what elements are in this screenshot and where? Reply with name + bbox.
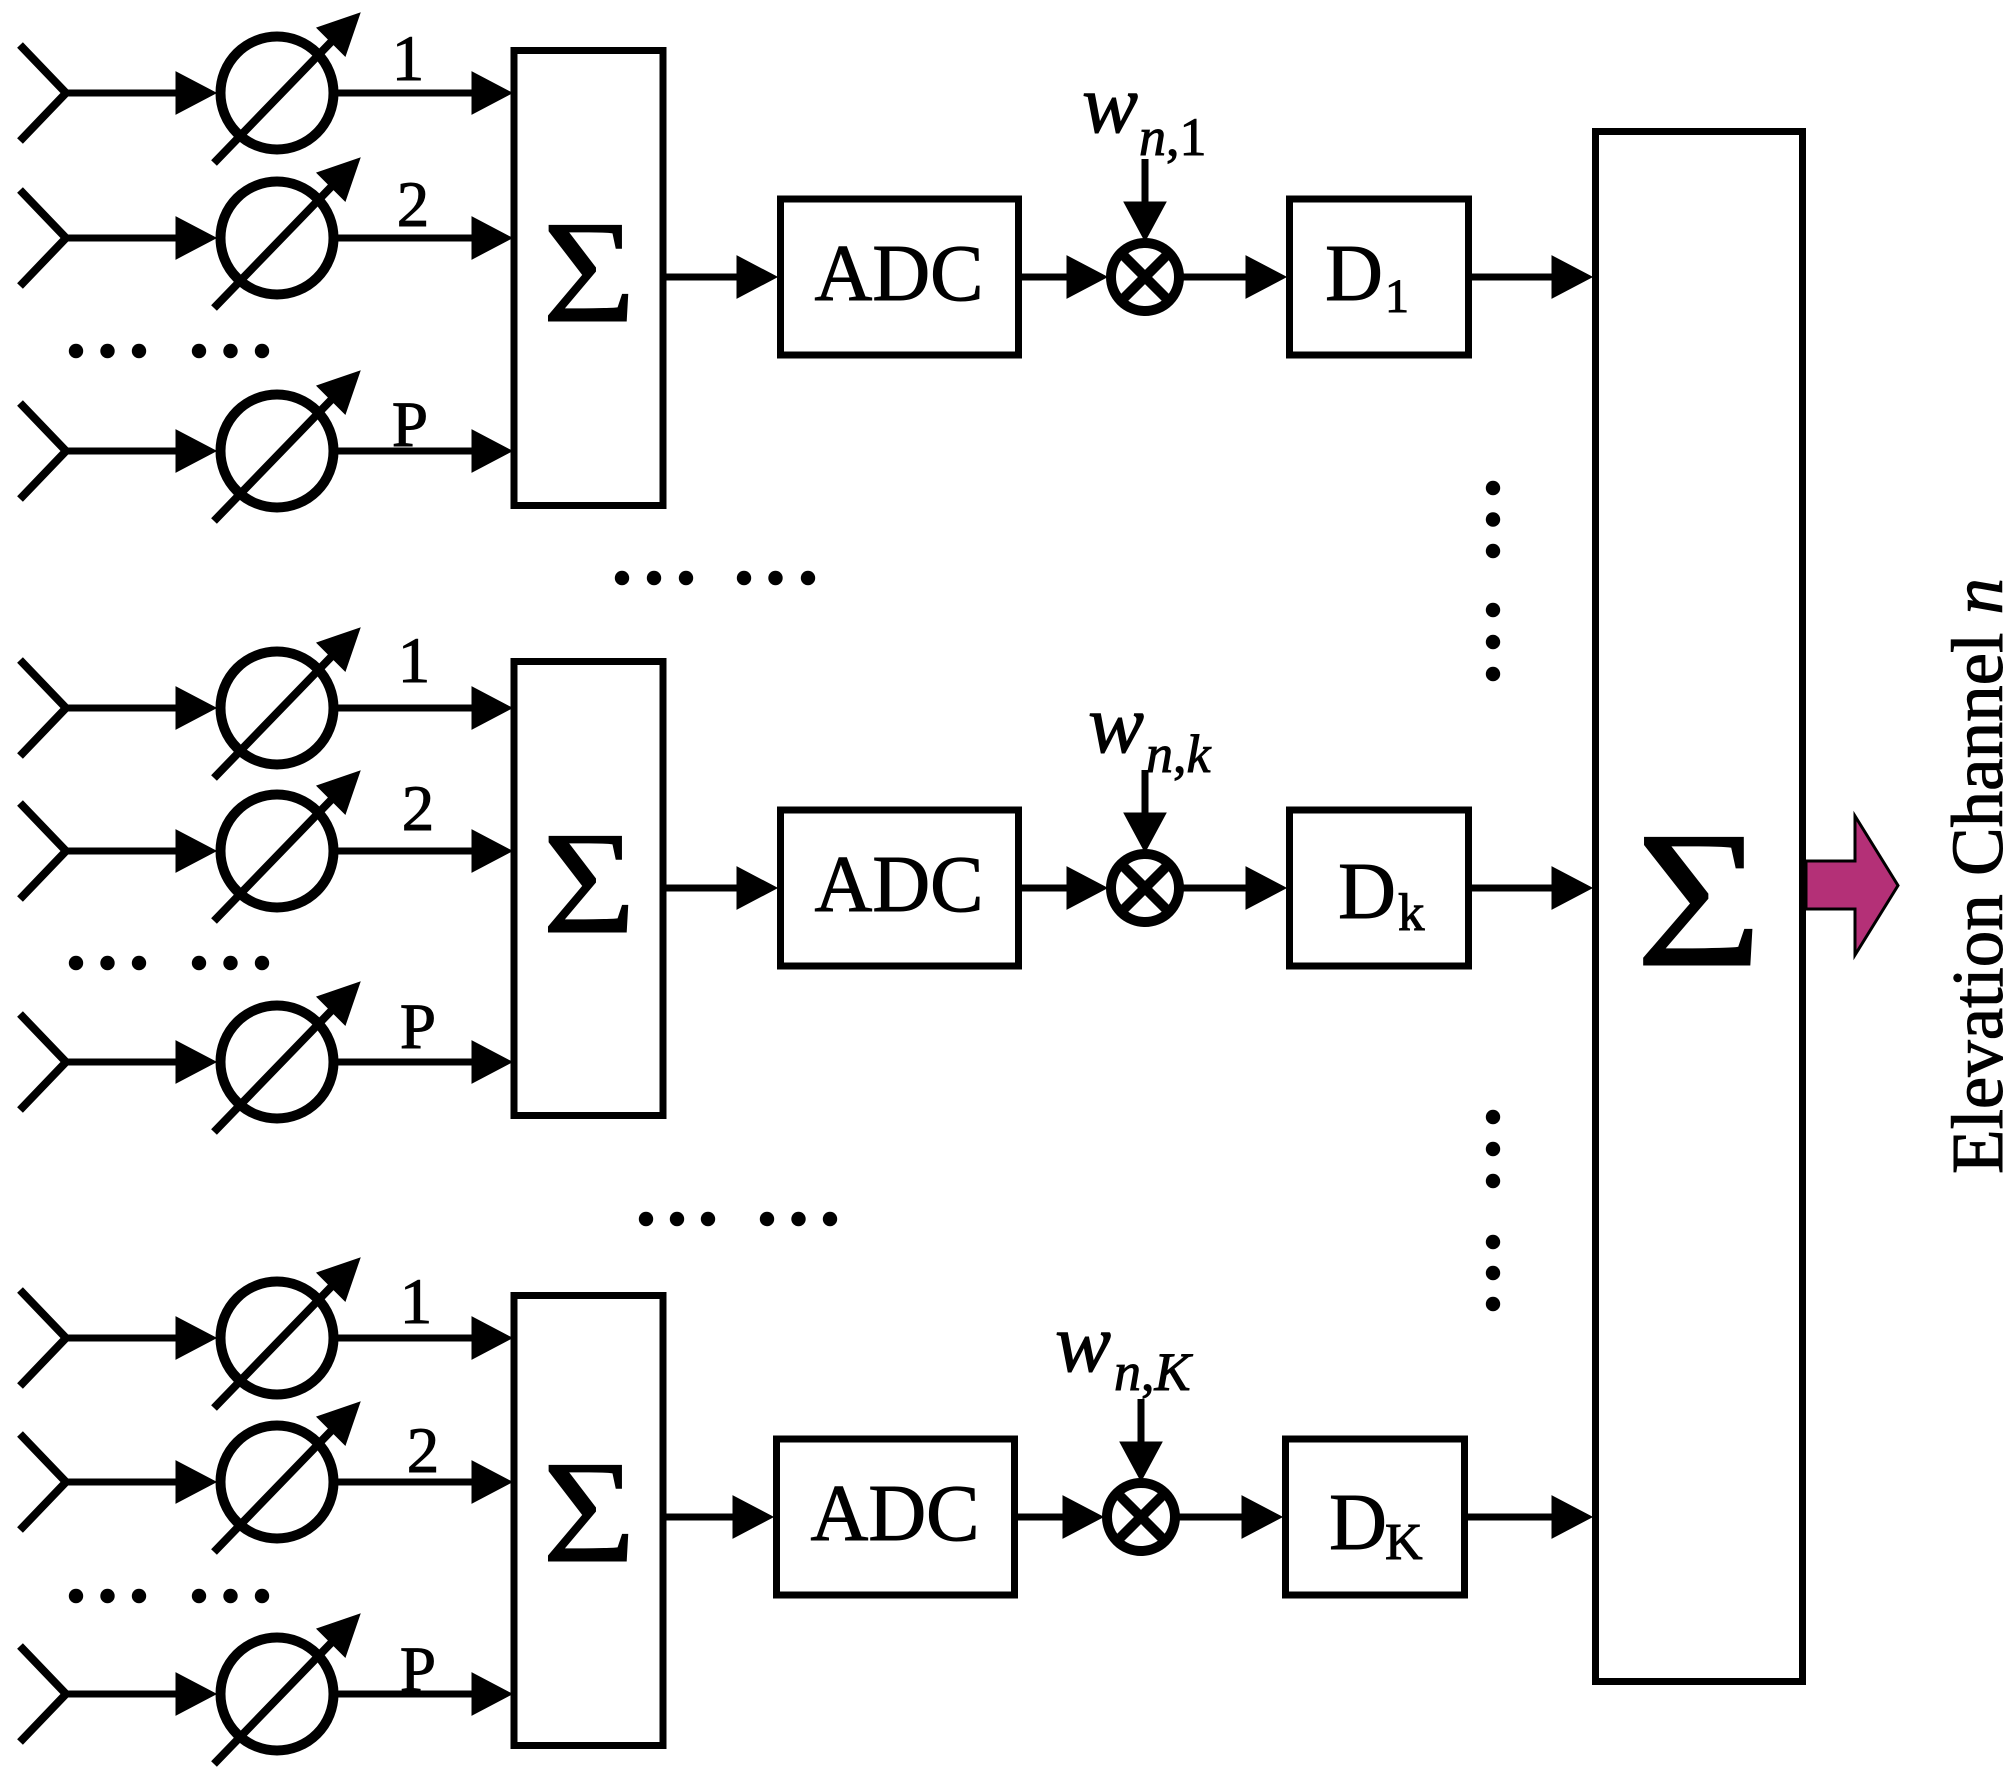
wire <box>335 217 512 259</box>
wire <box>1019 867 1108 909</box>
wire <box>663 1496 773 1538</box>
wire <box>663 867 777 909</box>
svg-text:1: 1 <box>400 1266 433 1338</box>
wire <box>1175 1496 1282 1538</box>
svg-text:w: w <box>1082 58 1138 151</box>
wire <box>663 256 777 298</box>
ellipsis <box>639 1212 837 1226</box>
delay D_1 <box>1290 199 1469 355</box>
svg-text:2: 2 <box>407 1415 440 1487</box>
antenna A3.3 <box>20 1646 66 1742</box>
svg-text:K: K <box>1385 1514 1423 1571</box>
svg-text:w: w <box>1088 678 1144 771</box>
weight w_n,1 <box>1082 58 1207 167</box>
wire <box>1469 867 1593 909</box>
antenna A1.2 <box>20 190 66 286</box>
svg-text:1: 1 <box>1385 270 1409 323</box>
wire <box>1124 770 1166 852</box>
phase shifter PS2.1 <box>214 628 360 778</box>
svg-text:n,k: n,k <box>1146 724 1212 784</box>
antenna A2.1 <box>20 660 66 756</box>
output arrow <box>1806 816 1898 955</box>
ADC U1 <box>781 199 1019 355</box>
svg-text:ADC: ADC <box>811 1470 980 1558</box>
antenna A1.1 <box>20 45 66 141</box>
summer SIGMA <box>1596 132 1803 1682</box>
wire <box>64 1673 216 1715</box>
svg-text:ADC: ADC <box>815 230 984 318</box>
wire <box>1015 1496 1104 1538</box>
ellipsis <box>69 1589 269 1603</box>
ellipsis <box>1486 481 1500 681</box>
ellipsis <box>69 956 269 970</box>
wire <box>64 687 216 729</box>
wire <box>64 217 216 259</box>
svg-text:2: 2 <box>402 773 435 845</box>
wire <box>64 1317 216 1359</box>
wire <box>1019 256 1108 298</box>
summer S3 <box>514 1296 663 1746</box>
svg-text:Σ: Σ <box>542 1432 635 1594</box>
ellipsis <box>69 344 269 358</box>
wire <box>335 1041 512 1083</box>
delay D_k <box>1290 810 1469 966</box>
svg-text:w: w <box>1055 1297 1111 1390</box>
ADC U2 <box>781 810 1019 966</box>
weight w_n,K <box>1055 1297 1194 1402</box>
wire <box>335 1317 512 1359</box>
summer S2 <box>514 662 663 1116</box>
phase shifter PS2.2 <box>214 771 360 921</box>
svg-text:D: D <box>1329 1479 1387 1567</box>
wire <box>335 72 512 114</box>
svg-text:2: 2 <box>397 169 430 241</box>
svg-text:Elevation Channel n: Elevation Channel n <box>1937 578 2016 1174</box>
phase shifter PS1.2 <box>214 158 360 308</box>
phase shifter PS2.3 <box>214 982 360 1132</box>
wire <box>335 430 512 472</box>
wire <box>1120 1399 1162 1481</box>
svg-text:D: D <box>1325 230 1383 318</box>
summer S1 <box>514 51 663 506</box>
phase shifter PS1.1 <box>214 13 360 163</box>
wire <box>64 1461 216 1503</box>
wire <box>335 1461 512 1503</box>
svg-text:n,1: n,1 <box>1139 107 1207 167</box>
svg-text:Σ: Σ <box>542 192 635 354</box>
ADC U3 <box>777 1439 1015 1595</box>
svg-text:P: P <box>400 991 436 1063</box>
wire <box>64 830 216 872</box>
antenna A1.3 <box>20 403 66 499</box>
phase shifter PS1.3 <box>214 371 360 521</box>
wire <box>335 1673 512 1715</box>
phase shifter PS3.1 <box>214 1258 360 1408</box>
svg-text:Σ: Σ <box>1635 791 1763 1007</box>
antenna A3.1 <box>20 1290 66 1386</box>
antenna A2.2 <box>20 803 66 899</box>
antenna A2.3 <box>20 1014 66 1110</box>
svg-text:Σ: Σ <box>542 803 635 965</box>
wire <box>1465 1496 1593 1538</box>
delay D_K <box>1286 1439 1465 1595</box>
wire <box>64 1041 216 1083</box>
svg-text:n,K: n,K <box>1114 1342 1194 1402</box>
wire <box>1469 256 1593 298</box>
multiplier M3 <box>1107 1483 1175 1551</box>
multiplier M1 <box>1111 243 1179 311</box>
ellipsis <box>1486 1110 1500 1311</box>
wire <box>1179 867 1286 909</box>
wire <box>64 72 216 114</box>
ellipsis <box>615 571 815 585</box>
wire <box>335 830 512 872</box>
svg-text:1: 1 <box>392 23 425 95</box>
antenna A3.2 <box>20 1434 66 1530</box>
svg-text:D: D <box>1338 848 1396 936</box>
wire <box>335 687 512 729</box>
svg-text:k: k <box>1398 884 1425 942</box>
multiplier M2 <box>1111 854 1179 922</box>
wire <box>64 430 216 472</box>
weight w_n,k <box>1088 678 1212 784</box>
svg-text:ADC: ADC <box>815 841 984 929</box>
phase shifter PS3.3 <box>214 1614 360 1764</box>
wire <box>1124 159 1166 241</box>
svg-text:1: 1 <box>398 625 431 697</box>
wire <box>1179 256 1286 298</box>
phase shifter PS3.2 <box>214 1402 360 1552</box>
